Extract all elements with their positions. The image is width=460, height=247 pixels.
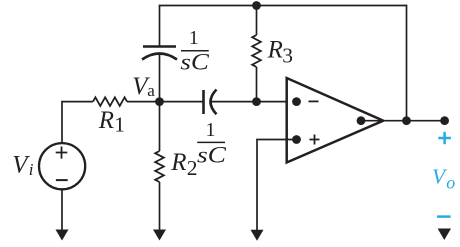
label Vo [432,165,455,193]
svg-text:sC: sC [197,143,226,169]
node dot op-amp output [357,116,366,125]
wire R2 to ground [159,182,161,230]
capacitor C1 [142,47,177,60]
node dot non-inverting input [292,135,301,144]
wire C1 bottom to node Va [159,54,161,102]
resistor R1 [93,97,127,106]
resistor R2 [155,151,164,182]
wire R3 top segment [256,6,258,36]
svg-text:R: R [98,107,114,134]
wire source bottom to ground [61,190,63,230]
label 1/sC for C1 [180,27,209,75]
svg-text:R: R [267,36,283,63]
svg-text:sC: sC [180,49,209,75]
svg-text:a: a [147,81,155,100]
label R3 [267,36,293,67]
svg-text:1: 1 [206,119,216,141]
node dot inverting input [292,97,301,106]
ground arrow under source [56,230,69,241]
wire feedback right vertical [406,5,408,121]
svg-text:R: R [170,149,186,176]
wire input left segment and corner down to source [62,102,93,143]
wire output [361,120,445,122]
ground arrow under non-inverting branch [251,230,264,241]
wire capacitor C2 to inverting input [212,101,297,103]
ground arrow under R2 [153,230,166,241]
svg-text:1: 1 [189,27,199,49]
label 1/sC for C2 [197,119,226,169]
node dot R3 bottom junction [252,97,261,106]
output reference arrow [438,229,451,241]
label R2 [170,149,197,180]
node dot output terminal [440,116,449,125]
svg-text:2: 2 [187,156,198,180]
label output plus [438,132,451,145]
label Va [132,73,155,100]
wire top rail [160,5,407,7]
wire top-left vertical to capacitor C1 [159,5,161,46]
wire non-inverting input to ground [257,140,297,231]
svg-text:i: i [29,160,34,179]
node Va dot [155,97,164,106]
capacitor C2 [204,90,217,115]
wire R1 to node Va [127,101,160,103]
label output minus [437,215,451,218]
label R1 [98,107,125,136]
svg-text:3: 3 [282,43,293,67]
svg-text:o: o [446,172,455,192]
node dot top rail / R3 [252,1,261,10]
resistor R3 [252,35,261,67]
svg-text:1: 1 [114,112,125,136]
node dot feedback junction [402,116,411,125]
voltage source Vi [39,143,85,189]
label Vi [12,152,34,180]
wire R3 bottom segment [256,67,258,102]
wire node Va down to R2 [159,102,161,151]
op-amp U1 [287,78,384,163]
wire node Va to capacitor C2 [160,101,204,103]
svg-text:V: V [12,152,30,179]
